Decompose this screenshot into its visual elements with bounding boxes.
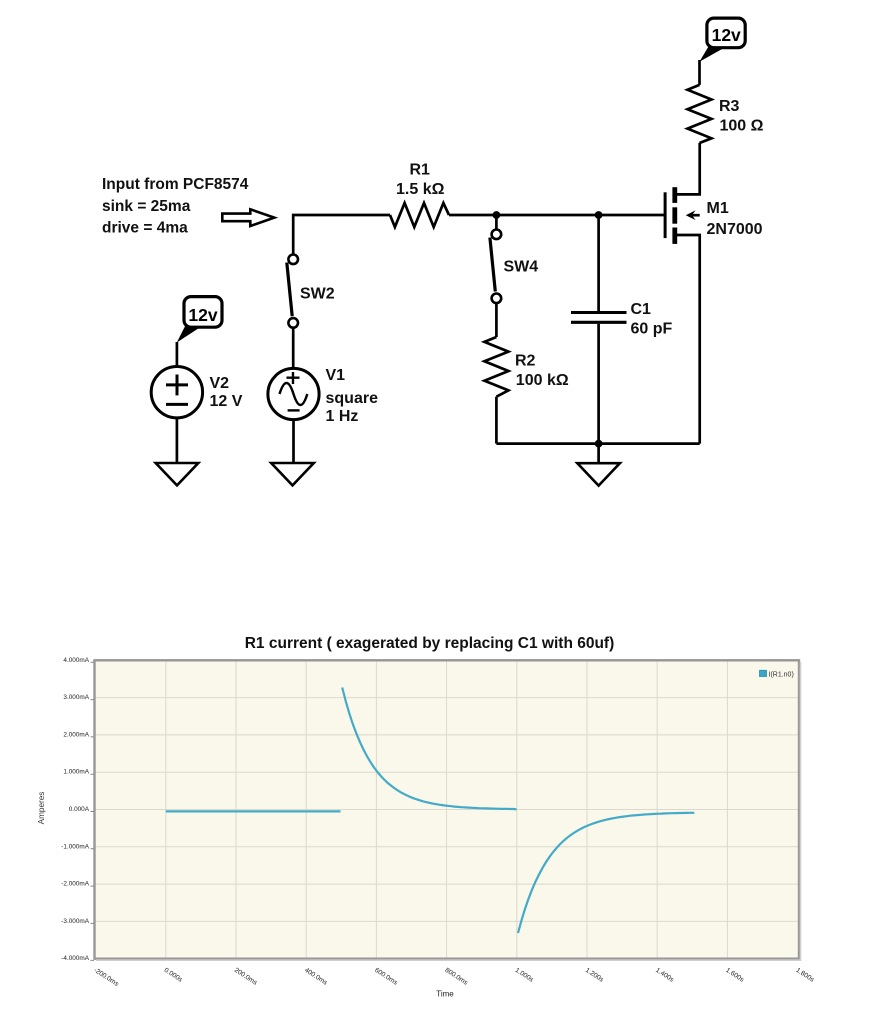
label V2 12 V xyxy=(210,375,243,410)
svg-text:1 Hz: 1 Hz xyxy=(326,408,359,425)
transistor M1 channel bars xyxy=(672,187,677,244)
svg-text:-200.0ms: -200.0ms xyxy=(92,967,120,988)
svg-text:12v: 12v xyxy=(188,305,217,325)
svg-text:R2: R2 xyxy=(515,353,536,370)
svg-text:1.000mA: 1.000mA xyxy=(63,769,89,776)
wire: V1 to ground xyxy=(292,420,295,463)
svg-text:drive = 4ma: drive = 4ma xyxy=(102,220,188,237)
label C1 value 60 pF xyxy=(631,301,673,338)
annotation text: Input from PCF8574 / sink = 25ma / drive = 4ma xyxy=(102,176,249,237)
chart curve segment C (negative recovery) xyxy=(518,812,694,933)
net flag 12v (top) xyxy=(699,18,745,62)
resistor R2 xyxy=(484,337,508,397)
chart x-axis tick labels xyxy=(92,967,815,988)
ground (V2) xyxy=(156,463,199,485)
wire: SW2 to V1 xyxy=(292,328,295,369)
svg-text:-2.000mA: -2.000mA xyxy=(61,881,89,888)
voltage source V2 xyxy=(151,367,202,418)
svg-text:100 Ω: 100 Ω xyxy=(720,117,764,134)
chart y-axis tick labels xyxy=(61,657,89,962)
svg-text:800.0ms: 800.0ms xyxy=(444,967,470,987)
wire: 12v flag to R3 xyxy=(698,60,701,85)
svg-text:4.000mA: 4.000mA xyxy=(63,657,89,664)
svg-text:12 V: 12 V xyxy=(210,393,243,410)
svg-text:sink = 25ma: sink = 25ma xyxy=(102,198,191,215)
switch SW4 xyxy=(490,230,501,304)
label R3 value 100 Ω xyxy=(719,98,764,135)
chart curve segment A (flat 0s-0.5s) xyxy=(166,810,341,812)
svg-text:-3.000mA: -3.000mA xyxy=(61,918,89,925)
svg-text:Input from PCF8574: Input from PCF8574 xyxy=(102,176,249,193)
svg-text:I(R1.n0): I(R1.n0) xyxy=(769,672,794,679)
svg-text:1.400s: 1.400s xyxy=(654,967,675,984)
ground (main rail) xyxy=(577,463,620,485)
svg-text:Time: Time xyxy=(436,990,454,999)
svg-text:100 kΩ: 100 kΩ xyxy=(516,372,569,389)
wire: SW4 to R2 xyxy=(495,303,498,337)
svg-text:1.600s: 1.600s xyxy=(724,967,745,984)
label V1 square 1 Hz xyxy=(326,367,379,425)
label R2 value 100 kΩ xyxy=(515,353,569,390)
resistor R3 xyxy=(688,85,712,143)
svg-text:200.0ms: 200.0ms xyxy=(233,967,259,987)
chart plot background xyxy=(95,660,800,958)
svg-text:R3: R3 xyxy=(719,98,740,115)
input block arrow xyxy=(222,209,274,226)
wire: V2 to ground xyxy=(176,418,179,463)
wire: M1 source down to rail xyxy=(676,235,700,444)
wire: C1 top stub xyxy=(597,215,600,311)
svg-text:2N7000: 2N7000 xyxy=(707,221,763,238)
resistor R1 xyxy=(390,203,449,227)
svg-text:M1: M1 xyxy=(707,200,729,217)
svg-text:3.000mA: 3.000mA xyxy=(63,694,89,701)
svg-text:1.000s: 1.000s xyxy=(514,967,535,984)
svg-text:SW2: SW2 xyxy=(300,286,335,303)
svg-text:12v: 12v xyxy=(712,25,741,45)
svg-text:400.0ms: 400.0ms xyxy=(303,967,329,987)
capacitor C1 xyxy=(571,313,627,323)
svg-text:1.200s: 1.200s xyxy=(584,967,605,984)
wire: R2 to ground rail xyxy=(495,397,498,444)
svg-text:1.5 kΩ: 1.5 kΩ xyxy=(396,181,445,198)
svg-text:R1: R1 xyxy=(410,162,431,179)
svg-text:square: square xyxy=(326,390,379,407)
svg-text:-4.000mA: -4.000mA xyxy=(61,955,89,962)
chart gridlines xyxy=(95,660,800,958)
wire: flag to V2 xyxy=(176,342,179,367)
svg-text:V1: V1 xyxy=(326,367,346,384)
svg-text:60 pF: 60 pF xyxy=(631,321,673,338)
svg-text:Amperes: Amperes xyxy=(37,792,46,825)
chart frame xyxy=(95,660,800,958)
svg-text:600.0ms: 600.0ms xyxy=(373,967,399,987)
svg-text:2.000mA: 2.000mA xyxy=(63,731,89,738)
wire: input node corner down to SW2 and right to R1 xyxy=(293,215,390,255)
node junction at R1 output xyxy=(493,211,501,219)
net flag 12v (V2) xyxy=(177,297,222,343)
chart legend xyxy=(760,670,767,676)
node junction at rail / ground xyxy=(595,440,603,448)
chart curve segment B (positive decay) xyxy=(342,688,516,810)
node junction at C1 top xyxy=(595,211,603,219)
ground (V1) xyxy=(271,463,314,485)
svg-text:-1.000mA: -1.000mA xyxy=(61,843,89,850)
svg-text:SW4: SW4 xyxy=(504,259,539,276)
wire: rail to ground symbol xyxy=(597,444,600,464)
wire: R1 to MOSFET gate (through nodes) xyxy=(449,214,665,217)
M1 body line with arrow xyxy=(692,214,700,217)
wire: junction to SW4 xyxy=(495,215,498,229)
svg-text:V2: V2 xyxy=(210,375,230,392)
wire: bottom ground rail xyxy=(496,442,699,445)
svg-text:0.000s: 0.000s xyxy=(163,967,184,984)
switch SW2 xyxy=(287,254,298,327)
svg-text:0.000A: 0.000A xyxy=(69,806,90,813)
wire: M1 drain to R3 xyxy=(676,143,700,194)
svg-text:C1: C1 xyxy=(631,301,652,318)
svg-text:R1 current ( exagerated by rep: R1 current ( exagerated by replacing C1 … xyxy=(245,635,615,652)
wire: C1 bottom to rail xyxy=(597,324,600,444)
label R1 value 1.5 kΩ xyxy=(396,162,445,199)
label M1 2N7000 xyxy=(707,200,763,238)
svg-text:1.800s: 1.800s xyxy=(795,967,816,984)
voltage source V1 (square 1 Hz) xyxy=(268,368,319,419)
transistor M1 2N7000 gate bar xyxy=(664,192,667,238)
